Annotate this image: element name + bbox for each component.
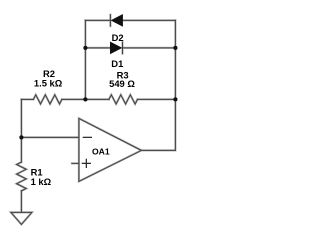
crisp core pass	[11, 15, 178, 225]
soft halo pass	[11, 15, 178, 225]
svg-text:D2: D2	[112, 32, 124, 43]
svg-text:D1: D1	[111, 58, 123, 69]
svg-text:549 Ω: 549 Ω	[109, 78, 135, 89]
svg-text:OA1: OA1	[92, 147, 110, 157]
svg-text:1 kΩ: 1 kΩ	[31, 176, 52, 187]
svg-text:1.5 kΩ: 1.5 kΩ	[34, 77, 63, 88]
